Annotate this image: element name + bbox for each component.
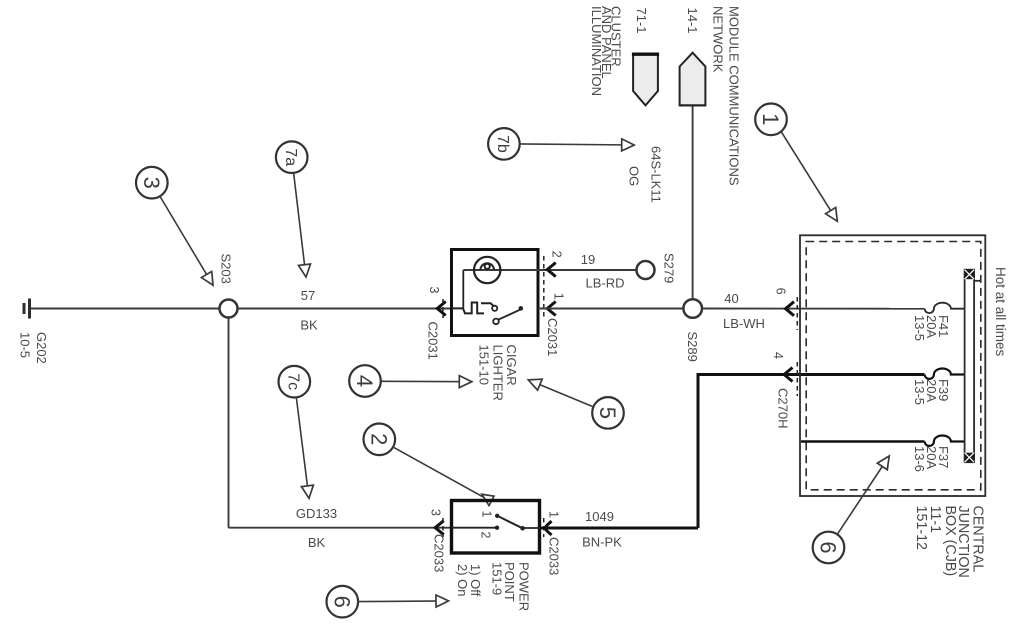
bus bar (965, 270, 975, 463)
callout 6 right leader arrow (837, 456, 890, 535)
pin 1 connector arrow (547, 302, 556, 316)
splice S289 (683, 299, 702, 318)
wire S203 to cigar lighter pin 3 (238, 308, 452, 310)
svg-text:BK: BK (308, 535, 326, 550)
wire S289 to CJB pin 6 (702, 308, 925, 310)
svg-text:BN-PK: BN-PK (582, 535, 622, 550)
svg-text:6: 6 (773, 288, 787, 295)
svg-text:57: 57 (301, 288, 315, 303)
svg-text:POWER: POWER (516, 562, 531, 611)
connector arrow CJB pin 4 (784, 368, 793, 382)
component label CIGAR LIGHTER 151-10 (476, 345, 519, 401)
central junction box CJB outline (800, 235, 985, 496)
svg-text:7b: 7b (494, 135, 511, 153)
callout 7b (488, 128, 520, 160)
callout 2 (364, 424, 396, 456)
net label MODULE COMMUNICATIONS NETWORK (711, 6, 742, 186)
svg-text:1: 1 (480, 511, 494, 518)
callout 3 (136, 167, 168, 199)
fuse F37 (925, 436, 965, 446)
fuse F39 (925, 369, 965, 379)
callout 2 leader arrow (392, 447, 494, 506)
svg-text:7a: 7a (282, 148, 299, 166)
svg-text:LIGHTER: LIGHTER (491, 345, 506, 401)
svg-text:10-5: 10-5 (18, 332, 33, 358)
svg-text:2: 2 (550, 251, 564, 258)
heating element symbol (474, 257, 500, 283)
wire 19 element to S279 (463, 269, 636, 271)
pin 2 connector arrow (547, 263, 556, 277)
fixed contact hook (481, 303, 497, 311)
svg-text:1: 1 (552, 293, 566, 300)
svg-text:S203: S203 (219, 254, 234, 284)
svg-text:ILLUMINATION: ILLUMINATION (589, 6, 604, 96)
svg-text:C2031: C2031 (545, 318, 560, 356)
svg-text:13-5: 13-5 (912, 379, 927, 405)
svg-text:3: 3 (427, 287, 441, 294)
callout 1 (755, 104, 787, 136)
svg-text:2: 2 (479, 532, 493, 539)
svg-text:2: 2 (366, 433, 391, 445)
svg-text:BOX (CJB): BOX (CJB) (942, 506, 958, 577)
callout 7a (276, 141, 308, 173)
svg-text:C2033: C2033 (432, 534, 447, 572)
svg-text:LB-RD: LB-RD (585, 276, 624, 291)
bus terminal top (965, 270, 975, 280)
svg-text:S289: S289 (685, 332, 700, 362)
svg-text:13-6: 13-6 (912, 446, 927, 472)
dashed connector line C2031 right (543, 256, 545, 320)
svg-text:Hot at all times: Hot at all times (993, 267, 1008, 357)
component label CENTRAL JUNCTION BOX (CJB) 11-1 151-12 (913, 506, 985, 578)
callout 7c (279, 366, 311, 398)
svg-text:BK: BK (300, 318, 318, 333)
callout 5 (592, 397, 624, 429)
svg-text:C2031: C2031 (426, 322, 441, 360)
splice S203 (220, 300, 238, 318)
connector arrow cigar lighter pin 3 (437, 302, 446, 316)
wire power point internal left (452, 527, 498, 529)
splice S279 (637, 261, 655, 279)
bus terminal bottom (965, 453, 975, 463)
svg-text:151-9: 151-9 (489, 562, 504, 595)
connector arrow power point pin 3 (435, 521, 444, 535)
svg-text:1: 1 (758, 113, 783, 125)
svg-text:14-1: 14-1 (685, 8, 700, 34)
svg-text:LB-WH: LB-WH (723, 316, 765, 331)
svg-text:C2033: C2033 (547, 537, 562, 575)
connector dashed line C2031 left (442, 299, 444, 318)
callout 5 leader arrow (528, 380, 594, 407)
svg-text:3: 3 (429, 509, 443, 516)
svg-text:7c: 7c (285, 373, 302, 390)
callout 6 bottom left (327, 586, 359, 618)
callout 4 leader arrow (380, 380, 472, 382)
wire element vertical (462, 270, 464, 309)
fuse label F41 20A 13-5 (912, 315, 951, 341)
callout 1 leader arrow (781, 131, 838, 222)
contact position 2 dot (495, 526, 499, 530)
connector dashed line C2033 left (442, 518, 444, 537)
callout 7b leader arrow (519, 144, 635, 145)
thermal breaker square wave (452, 303, 485, 314)
cigar lighter box (component outline) (452, 250, 539, 336)
callout 7a leader arrow (294, 172, 307, 277)
fuse label F39 20A 13-5 (912, 379, 951, 405)
contact position 1 dot (495, 514, 499, 518)
svg-text:6: 6 (329, 596, 354, 608)
svg-text:4: 4 (771, 352, 785, 359)
component label POWER POINT 151-9 1) Off 2) On (455, 562, 531, 611)
svg-text:GD133: GD133 (296, 506, 337, 521)
wire ground to S203 (31, 308, 220, 310)
wire bus feed stub (974, 280, 981, 282)
svg-text:13-5: 13-5 (912, 315, 927, 341)
wire 1049 vertical riser (697, 375, 700, 529)
svg-text:1049: 1049 (585, 509, 614, 524)
wire 1049 power point to junction (540, 527, 699, 530)
svg-text:C270H: C270H (776, 388, 791, 428)
svg-text:19: 19 (581, 252, 595, 267)
svg-text:151-10: 151-10 (476, 345, 491, 385)
wire CJB pin 4 to riser (697, 373, 925, 376)
svg-text:NETWORK: NETWORK (711, 6, 726, 73)
svg-text:6: 6 (816, 541, 841, 553)
svg-text:MODULE COMMUNICATIONS: MODULE COMMUNICATIONS (727, 6, 742, 186)
connector arrow power point pin 1 (545, 521, 552, 535)
switch blade power point (499, 516, 525, 530)
callout 7c leader arrow (296, 397, 309, 499)
svg-text:71-1: 71-1 (634, 8, 649, 34)
svg-text:2) On: 2) On (455, 564, 470, 597)
callout 3 leader arrow (159, 195, 213, 285)
svg-text:5: 5 (595, 407, 620, 419)
ground G202 (24, 299, 30, 319)
net label CLUSTER AND PANEL ILLUMINATION (589, 6, 624, 96)
svg-text:S279: S279 (662, 253, 677, 283)
wire 14-1 off-page to S289 (692, 106, 694, 299)
connector dashed line C2033 right (543, 518, 545, 537)
connector dashed line C270H pin 4 (796, 362, 798, 396)
wire F37 row (801, 440, 925, 443)
callout 6 right (813, 532, 845, 564)
svg-text:G202: G202 (34, 332, 49, 364)
wire power point internal right (523, 527, 540, 529)
svg-text:1: 1 (547, 511, 561, 518)
switch blade (493, 306, 523, 324)
svg-text:4: 4 (352, 375, 377, 387)
svg-text:OG: OG (626, 166, 641, 186)
svg-text:40: 40 (724, 291, 738, 306)
callout 6 leader arrow (357, 600, 448, 603)
CJB dashed border (806, 242, 981, 490)
svg-text:3: 3 (139, 177, 164, 189)
callout 4 (349, 365, 381, 397)
connector arrow CJB pin 6 (786, 302, 795, 316)
fuse F41 (925, 303, 965, 313)
wire GD133 to power point pin 3 (229, 527, 452, 529)
svg-text:151-12: 151-12 (913, 506, 929, 551)
off-page connector to 14-1 (680, 53, 706, 106)
power point box (452, 501, 540, 554)
off-page connector to 71-1 (632, 54, 659, 105)
fuse label F37 20A 13-6 (912, 446, 951, 472)
svg-text:64S-LK11: 64S-LK11 (649, 146, 664, 203)
wire S203 down vertical (228, 318, 230, 528)
connector dashed line C270H pin 6 (796, 297, 798, 330)
wire cigar lighter pin 1 to S289 (538, 308, 683, 310)
